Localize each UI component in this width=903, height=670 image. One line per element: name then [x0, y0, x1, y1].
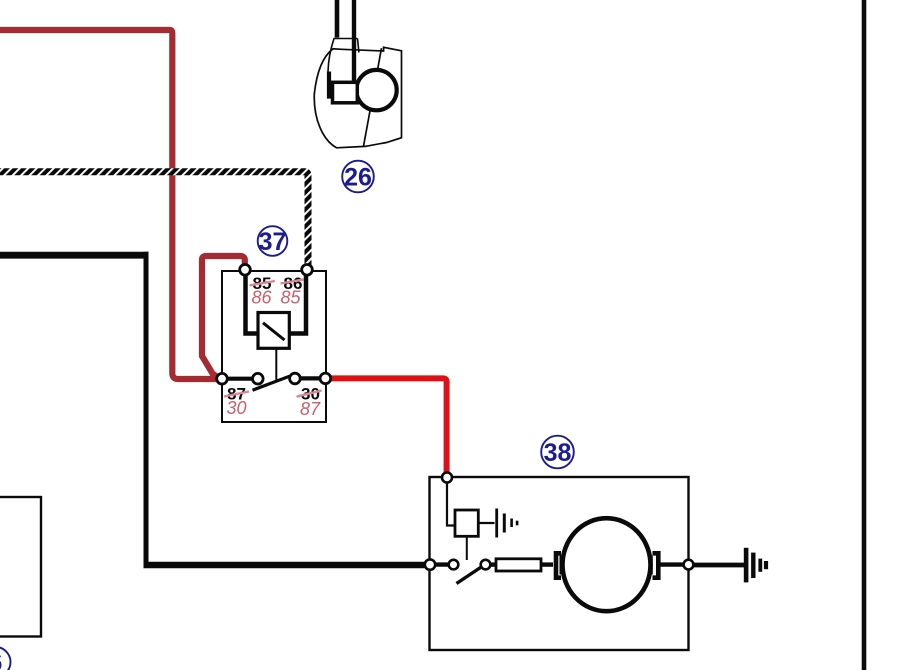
- svg-text:38: 38: [544, 439, 572, 467]
- svg-text:37: 37: [259, 228, 287, 256]
- svg-text:30: 30: [226, 398, 246, 418]
- svg-text:6: 6: [0, 649, 2, 670]
- svg-text:85: 85: [280, 288, 301, 308]
- svg-text:87: 87: [300, 399, 321, 419]
- svg-text:26: 26: [344, 164, 372, 192]
- svg-text:86: 86: [251, 288, 272, 308]
